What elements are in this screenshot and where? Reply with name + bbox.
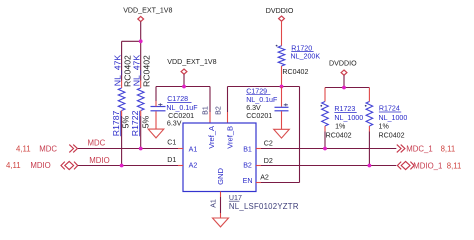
port symbol MDC (input, left) — [69, 145, 77, 153]
wire: C1728 bottom lead — [155, 111, 157, 129]
svg-text:NL_47K: NL_47K — [113, 55, 123, 87]
power symbol DVDDIO (top) — [279, 16, 285, 21]
wire: MDC_1 net — [256, 148, 396, 150]
svg-text:8,11: 8,11 — [441, 145, 456, 154]
svg-text:6.3V: 6.3V — [167, 120, 182, 128]
svg-text:EN: EN — [243, 177, 253, 185]
pin stubs red — [178, 149, 261, 183]
junction at VDD branch — [139, 39, 143, 43]
port symbol MDIO_1 (bidirectional, right) — [397, 161, 414, 169]
svg-text:Vref_A: Vref_A — [207, 125, 216, 149]
svg-text:MDC: MDC — [39, 144, 57, 153]
wire: EN connection vertical — [299, 87, 301, 183]
svg-text:VDD_EXT_1V8: VDD_EXT_1V8 — [123, 7, 172, 15]
svg-text:C2: C2 — [264, 140, 273, 148]
pin: Vref_A stub — [209, 87, 211, 113]
ground under C1729 — [274, 129, 290, 138]
svg-text:C1728: C1728 — [167, 95, 188, 103]
ground under U17 — [213, 218, 229, 227]
svg-text:MDC_1: MDC_1 — [406, 145, 432, 154]
svg-text:NL_200K: NL_200K — [291, 53, 321, 61]
wire: DVDDIO stem to R1720 — [281, 21, 283, 46]
junction R1722/MDC — [139, 147, 143, 151]
port symbol MDIO (bidirectional, left) — [61, 161, 78, 169]
svg-text:4,11: 4,11 — [16, 144, 31, 153]
svg-text:MDIO: MDIO — [89, 156, 109, 165]
svg-text:1%: 1% — [379, 123, 390, 131]
svg-text:B1: B1 — [201, 106, 209, 115]
pin: Vref_B stub — [227, 87, 229, 113]
svg-text:CC0201: CC0201 — [246, 112, 272, 120]
wire: rail down to C1728 — [155, 87, 157, 102]
op-amp/IC U17 box — [183, 123, 256, 192]
svg-text:U17: U17 — [229, 194, 242, 202]
svg-text:A2: A2 — [260, 174, 269, 182]
svg-text:NL_0.1uF: NL_0.1uF — [166, 104, 198, 112]
junction R1723/MDC_1 — [323, 147, 327, 151]
svg-text:NL_1000: NL_1000 — [334, 114, 363, 122]
svg-text:RC0402: RC0402 — [142, 55, 152, 87]
ground under C1728 — [148, 129, 164, 138]
svg-text:VDD_EXT_1V8: VDD_EXT_1V8 — [167, 58, 216, 66]
resistor R1724 — [366, 102, 373, 127]
junction R1724/MDIO_1 — [368, 164, 372, 168]
resistor R1723 — [322, 102, 329, 127]
wire: MDIO net — [78, 165, 183, 167]
svg-text:NL_0.1uF: NL_0.1uF — [246, 96, 278, 104]
wire: R1787 bottom lead to MDIO — [121, 111, 123, 117]
svg-text:NL_1000: NL_1000 — [379, 114, 408, 122]
svg-text:R1724: R1724 — [379, 105, 400, 113]
wire: R1722 bottom lead to MDC — [140, 111, 142, 117]
wire: DVDDIO rail — [325, 87, 369, 89]
svg-text:RC0402: RC0402 — [379, 131, 405, 139]
capacitor C1729 — [281, 87, 283, 107]
svg-text:A2: A2 — [189, 162, 198, 170]
junction on Vref_B rail — [280, 85, 284, 89]
wire: MDIO_1 net — [256, 165, 396, 167]
wire: R1720 bottom lead — [281, 66, 283, 87]
wire: Vref_B rail — [228, 86, 300, 88]
svg-text:DVDDIO: DVDDIO — [329, 60, 357, 68]
svg-text:MDIO: MDIO — [30, 161, 50, 170]
svg-text:1%: 1% — [335, 123, 346, 131]
junction on Vref_A rail — [182, 85, 186, 89]
svg-text:4,11: 4,11 — [6, 161, 21, 170]
wire: DVDDIO2 stem — [343, 75, 345, 87]
wire: R1722 top lead — [140, 41, 142, 80]
junction on DVDDIO rail — [342, 86, 346, 90]
capacitor C1728 — [151, 107, 166, 111]
wire: Vref_A rail — [156, 86, 210, 88]
wire: VDD2 stem — [183, 74, 185, 86]
svg-text:D2: D2 — [264, 157, 273, 165]
svg-text:Vref_B: Vref_B — [226, 126, 235, 149]
resistor R1787 — [118, 88, 125, 111]
svg-text:8,11: 8,11 — [447, 161, 462, 170]
svg-text:RC0402: RC0402 — [326, 131, 352, 139]
svg-text:R1723: R1723 — [334, 105, 355, 113]
svg-text:5%: 5% — [140, 115, 150, 128]
svg-text:6.3V: 6.3V — [246, 104, 261, 112]
svg-text:RC0402: RC0402 — [282, 68, 308, 76]
svg-text:R1720: R1720 — [291, 44, 312, 52]
svg-text:GND: GND — [216, 168, 225, 185]
svg-text:B1: B1 — [243, 146, 252, 154]
wire: EN horizontal — [256, 182, 300, 184]
resistor R1720 — [278, 46, 285, 66]
svg-text:C1: C1 — [167, 139, 176, 147]
wire: R1723 bottom lead to MDC_1 — [324, 126, 326, 132]
wire: C1729 bottom lead — [281, 111, 283, 129]
svg-text:C1729: C1729 — [246, 87, 267, 95]
wire: R1724 bottom lead to MDIO_1 — [368, 126, 370, 132]
svg-text:NL_47K: NL_47K — [132, 55, 142, 87]
svg-text:D1: D1 — [167, 156, 176, 164]
power symbol VDD_EXT_1V8 (second) — [181, 69, 187, 74]
svg-text:MDC: MDC — [88, 138, 106, 147]
svg-text:A1: A1 — [189, 146, 198, 154]
svg-text:R1787: R1787 — [111, 110, 121, 136]
resistor R1722 — [137, 88, 144, 111]
port symbol MDC_1 (right) — [397, 145, 405, 153]
svg-text:B2: B2 — [243, 162, 252, 170]
power symbol VDD_EXT_1V8 (top left) — [138, 16, 144, 21]
wire: branch to R1787 — [122, 40, 141, 42]
power symbol DVDDIO (second) — [341, 70, 347, 75]
svg-text:MDIO_1: MDIO_1 — [413, 161, 442, 170]
wire: VDD_EXT_1V8 stem — [140, 22, 142, 42]
svg-text:B2: B2 — [214, 106, 222, 115]
wire: GND pin stub — [220, 192, 222, 198]
wire: R1787 top lead — [121, 41, 123, 80]
junction R1787/MDIO — [120, 164, 124, 168]
svg-text:NL_LSF0102YZTR: NL_LSF0102YZTR — [229, 202, 299, 211]
svg-text:R1722: R1722 — [130, 110, 140, 136]
wire: MDC net — [78, 148, 183, 150]
svg-text:DVDDIO: DVDDIO — [266, 7, 294, 15]
wire: R1724 top lead — [368, 88, 370, 102]
wire: R1723 top lead — [324, 88, 326, 102]
svg-text:A1: A1 — [210, 199, 218, 208]
